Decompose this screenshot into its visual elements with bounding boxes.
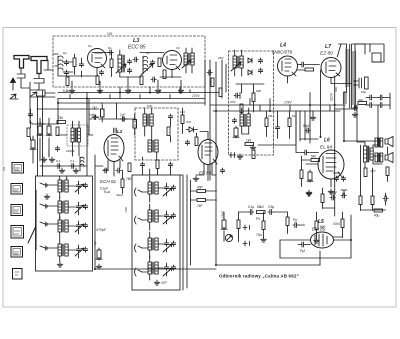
wire box A drops xyxy=(72,77,181,87)
ground G17 xyxy=(261,237,267,242)
switch box Po xyxy=(11,205,23,216)
osc stage 4: transformer T17 xyxy=(148,262,158,274)
wire det xyxy=(236,84,264,112)
resistor R42 xyxy=(27,128,30,137)
volume pot with switch xyxy=(225,234,232,241)
svg-text:50µF: 50µF xyxy=(330,191,337,195)
wire U2 to EZ80 xyxy=(298,65,320,71)
ground G12 xyxy=(328,189,334,194)
svg-text:40Ρ: 40Ρ xyxy=(197,186,203,190)
ground G22 xyxy=(73,168,79,173)
node n2 xyxy=(119,92,121,94)
wire mains to switch xyxy=(352,44,384,62)
switch box Sr xyxy=(11,226,24,239)
wire transformer top xyxy=(337,44,365,92)
trimmer arrow xyxy=(116,64,126,73)
band stage 2: transformer T11 xyxy=(58,201,68,213)
resistor R29 xyxy=(237,220,240,229)
capacitor C61 xyxy=(220,168,224,173)
svg-text:170V: 170V xyxy=(192,94,200,98)
svg-text:9p: 9p xyxy=(63,51,67,55)
ground G1 xyxy=(69,88,75,93)
svg-text:6,8: 6,8 xyxy=(37,121,42,125)
resistor R44 xyxy=(133,120,137,129)
osc stage 4: contact xyxy=(135,268,143,276)
svg-text:7k0: 7k0 xyxy=(58,116,63,120)
svg-text:6k8: 6k8 xyxy=(256,89,261,93)
electrolytic C13 xyxy=(233,126,239,138)
wire bottom row xyxy=(58,75,138,77)
capacitor C25 xyxy=(70,164,75,169)
capacitor C62 xyxy=(99,70,103,75)
electrolytic C35 xyxy=(307,170,313,182)
trimmer arrows left coil box xyxy=(75,184,84,256)
resistor R35 xyxy=(321,194,324,203)
svg-text:7kΡ: 7kΡ xyxy=(197,204,203,208)
mains switch S1 xyxy=(372,53,381,62)
wire tuner bottom rail xyxy=(88,76,181,77)
node n8 xyxy=(334,104,336,106)
resistor R34 xyxy=(341,219,344,228)
band stage 4: transformer T13 xyxy=(58,244,68,256)
resistor R14 xyxy=(121,179,124,188)
switch box Kr xyxy=(11,184,23,195)
node n13 xyxy=(343,140,345,142)
resistor R24 xyxy=(364,168,367,177)
capacitor bank C20 xyxy=(379,103,384,108)
capacitor bank C19 xyxy=(368,103,373,108)
svg-text:ΡµΩ: ΡµΩ xyxy=(104,190,111,194)
resistor R36 xyxy=(359,196,362,205)
wire left risers xyxy=(30,109,32,140)
tube U4 ECH81 xyxy=(104,135,124,170)
svg-text:300: 300 xyxy=(334,87,338,92)
ground G8 xyxy=(41,157,47,162)
resistor R22 xyxy=(311,159,320,162)
resistor R43 xyxy=(101,109,105,117)
capacitor C66 xyxy=(28,112,32,117)
bus riser stubs xyxy=(240,93,330,112)
wire g23 stub xyxy=(312,111,314,115)
tube U2 UABC80 xyxy=(278,56,298,76)
wire grid left xyxy=(55,54,82,77)
electrolytic cap C68 xyxy=(121,117,128,121)
svg-text:ECH 81: ECH 81 xyxy=(100,179,117,184)
ground G4 xyxy=(155,88,161,93)
osc stage 1: transformer T14 xyxy=(148,182,158,194)
wire cluster xyxy=(40,118,49,156)
svg-text:Ρµf: Ρµf xyxy=(300,249,305,253)
band stage 3: capacitor C43 xyxy=(83,223,87,228)
wire cluster xyxy=(323,188,348,209)
svg-text:220pF: 220pF xyxy=(66,149,75,153)
resistor R4 xyxy=(66,77,69,86)
osc stage 2: contact xyxy=(135,216,143,224)
svg-text:50µF: 50µF xyxy=(303,124,310,128)
capacitor C1 xyxy=(64,60,68,65)
svg-text:47Ρ: 47Ρ xyxy=(161,281,167,285)
trimmer arrow T2 xyxy=(231,62,241,71)
switch contact K1 xyxy=(243,225,250,230)
svg-text:EZ 80: EZ 80 xyxy=(320,51,333,57)
wire ECH81 pins xyxy=(103,160,120,170)
antenna T2 xyxy=(31,57,47,74)
band stage 4 wires xyxy=(46,240,79,262)
svg-text:5µF: 5µF xyxy=(147,104,153,108)
svg-text:6p: 6p xyxy=(108,46,112,50)
wire ECH81 down xyxy=(95,155,123,269)
capacitor C60 xyxy=(207,70,212,75)
resistor R6 xyxy=(140,76,143,85)
switch box Gr xyxy=(13,269,23,280)
band stage 1: trimmer C38 xyxy=(76,183,80,188)
wire right risers xyxy=(267,105,311,143)
resistor R16 xyxy=(181,115,184,124)
capacitor C63 xyxy=(133,57,138,62)
wire cluster links xyxy=(89,99,135,136)
svg-text:2µF: 2µF xyxy=(120,113,126,117)
svg-text:93V: 93V xyxy=(230,100,236,104)
resistor R21 xyxy=(288,118,291,127)
wire T6 xyxy=(242,108,249,134)
band stage 1 wires xyxy=(46,176,79,198)
resistor R1 xyxy=(73,58,76,67)
tube U1a ECC85 triode xyxy=(88,49,107,68)
node n3 xyxy=(149,92,151,94)
ground G5 xyxy=(178,88,184,93)
svg-text:220V: 220V xyxy=(330,92,334,101)
svg-text:6p: 6p xyxy=(88,44,92,48)
svg-text:L3: L3 xyxy=(133,38,139,44)
oscillator coil T3 xyxy=(71,128,80,142)
wire rectifier out xyxy=(331,84,355,110)
wire tone chain xyxy=(239,211,249,213)
capacitor C7 xyxy=(150,60,154,65)
svg-text:Ρµ: Ρµ xyxy=(293,218,297,222)
wire EF85 in xyxy=(183,108,197,137)
wire vol area xyxy=(224,212,239,242)
wire speaker riser xyxy=(377,105,379,137)
switch box Dl xyxy=(11,247,23,258)
wire audio box right xyxy=(319,251,321,265)
band stage 1: transformer T10 xyxy=(58,180,68,192)
electrolytic C22 xyxy=(37,124,43,136)
dashed box L1 (osc coil) xyxy=(67,125,88,146)
ground G21 xyxy=(59,168,65,173)
band stage 2: trimmer C40 xyxy=(76,204,80,209)
resistor R8 xyxy=(252,93,255,102)
ground G10 xyxy=(96,264,102,269)
capacitor C6 xyxy=(127,68,131,73)
capacitor C21 xyxy=(353,106,358,111)
band stage 4: contact xyxy=(40,246,47,250)
wire antenna bus down xyxy=(38,90,43,176)
capacitor C33 xyxy=(305,128,310,133)
switch arm lever xyxy=(28,224,36,245)
wire EL84 left xyxy=(296,153,319,187)
capacitor C5 xyxy=(127,59,131,64)
wire bus W5 xyxy=(32,123,58,125)
wire bus W1 xyxy=(58,92,219,94)
svg-text:Odbiornik radiowy „Calina AB 6: Odbiornik radiowy „Calina AB 662” xyxy=(219,274,299,279)
tube U6 EL84 xyxy=(318,150,344,179)
wire risers right of middle box xyxy=(143,157,191,290)
svg-text:0,1: 0,1 xyxy=(56,159,61,163)
svg-text:2M: 2M xyxy=(268,114,273,118)
capacitor C32 xyxy=(275,125,279,130)
wire switch column xyxy=(35,190,37,250)
node n12 xyxy=(320,136,322,138)
resistor R41 xyxy=(163,70,166,79)
band stage 3: transformer T12 xyxy=(58,220,68,232)
osc stage 3 wires xyxy=(142,232,167,258)
wire to box A xyxy=(30,93,55,97)
trimmer C2 xyxy=(64,70,68,75)
svg-text:0,1: 0,1 xyxy=(70,159,75,163)
wire tuner-to-detector verticals xyxy=(222,60,226,98)
IF transformer T4 xyxy=(143,114,153,126)
svg-text:Ρ0: Ρ0 xyxy=(256,217,260,221)
output transformer T7 xyxy=(344,105,383,177)
resistor R38 xyxy=(374,209,383,212)
matching transformer T8 xyxy=(375,138,378,147)
resistor R26 xyxy=(156,160,159,169)
resistor R33 xyxy=(315,221,318,230)
switch box Zw xyxy=(12,163,24,174)
resistor R30 xyxy=(257,211,266,214)
svg-text:1k0: 1k0 xyxy=(180,110,185,114)
node n1 xyxy=(86,98,88,100)
svg-text:47Ρ: 47Ρ xyxy=(370,169,376,173)
band stage 4: capacitor C45 xyxy=(83,247,87,252)
osc stage 1: contact xyxy=(135,188,143,196)
trimmer arrow 2 xyxy=(141,64,153,75)
svg-text:100Ρ: 100Ρ xyxy=(333,171,340,175)
svg-text:30: 30 xyxy=(146,51,150,55)
wire mid-left xyxy=(33,136,49,163)
svg-text:25V: 25V xyxy=(218,56,224,60)
svg-text:L2: L2 xyxy=(117,129,123,134)
capacitor C34 xyxy=(303,150,308,155)
band stage 1: contact xyxy=(40,183,47,187)
wire audio box bottom xyxy=(216,264,320,266)
resistor R13 xyxy=(56,127,59,136)
tube U7 EM80 magic eye xyxy=(311,232,334,248)
coil L2 osc with core xyxy=(118,55,122,72)
ground G14 xyxy=(44,194,50,199)
resistor R9 xyxy=(240,104,243,113)
svg-text:43µ: 43µ xyxy=(358,98,363,102)
osc stage 2: caps C47 xyxy=(164,213,168,218)
svg-text:50µ: 50µ xyxy=(361,90,366,94)
svg-text:L4: L4 xyxy=(280,43,286,49)
wire verticals top-mid xyxy=(87,60,216,180)
electrolytic C28 xyxy=(96,248,102,260)
capacitor C30 xyxy=(185,140,189,145)
band stage 1: capacitor C39 xyxy=(83,183,87,188)
coil L3 tank xyxy=(143,56,148,74)
resistor R3 xyxy=(158,58,161,67)
wire EM80 xyxy=(280,212,351,258)
svg-text:L5: L5 xyxy=(318,219,324,225)
speaker SP1 xyxy=(385,137,393,147)
ground G7 xyxy=(352,112,358,117)
capacitor C8 xyxy=(151,77,156,82)
capacitor C55 xyxy=(293,223,298,228)
svg-text:0,1µ: 0,1µ xyxy=(248,205,254,209)
electrolytic cap C67 xyxy=(92,115,99,119)
capacitor C54 xyxy=(268,210,273,215)
tube U3 EZ80 rectifier xyxy=(321,58,341,78)
junction details mid xyxy=(43,99,88,127)
heater winding xyxy=(343,92,345,104)
node n9 xyxy=(94,268,96,270)
wire bus W3 xyxy=(210,104,345,106)
IF transformer T1 xyxy=(184,53,194,65)
node n5 xyxy=(215,110,217,112)
diode D1 xyxy=(248,58,252,63)
osc stage 3: contact xyxy=(135,244,143,252)
svg-text:47k0: 47k0 xyxy=(333,222,340,226)
resistor R7 left of box xyxy=(219,88,222,97)
node n10 xyxy=(215,264,217,266)
tube U1b ECC85 triode xyxy=(163,51,182,70)
capacitor C11 xyxy=(258,68,262,73)
electrolytic C64 xyxy=(30,138,36,150)
osc stage 4: caps C49 xyxy=(164,265,168,270)
osc stage 4 wires xyxy=(142,256,167,280)
speaker SP2 xyxy=(385,153,393,163)
svg-text:10: 10 xyxy=(176,46,180,50)
svg-text:1k0: 1k0 xyxy=(246,139,251,143)
osc stage 2 wires xyxy=(142,204,167,230)
ground G20 xyxy=(193,176,199,181)
plug connector P1 xyxy=(17,74,25,82)
wire antenna cross xyxy=(30,97,32,123)
svg-text:5k0: 5k0 xyxy=(311,155,316,159)
capacitor bank C17 xyxy=(368,95,373,100)
osc stage 1: caps C46 xyxy=(164,185,168,190)
svg-text:100: 100 xyxy=(107,32,113,36)
resistor R37 xyxy=(371,196,374,205)
resistor R18 xyxy=(245,143,254,146)
wire to speakers xyxy=(344,105,382,164)
trimmer arrows mid coil box xyxy=(163,188,172,276)
resistor R10 xyxy=(305,68,314,71)
capacitor C58 xyxy=(341,193,346,198)
capacitor C56 xyxy=(300,242,305,247)
resistor R12 on W5 xyxy=(57,121,66,124)
svg-text:EM 80: EM 80 xyxy=(312,227,326,232)
antenna T1 xyxy=(14,56,29,69)
svg-text:6N8C/6T8: 6N8C/6T8 xyxy=(272,50,293,55)
wire res pair xyxy=(191,191,217,200)
band stage 2 wires xyxy=(46,197,79,219)
capacitor C3 xyxy=(79,62,83,67)
ground G6 xyxy=(250,145,256,150)
band stage 3: trimmer C42 xyxy=(76,223,80,228)
arrow A (antenna input arrow) xyxy=(11,78,16,90)
capacitor C31 xyxy=(232,118,236,123)
wire tuner top rail xyxy=(53,53,164,55)
node n15 xyxy=(57,102,59,104)
resistor R31 xyxy=(262,221,265,230)
svg-text:40µ: 40µ xyxy=(374,214,380,218)
wire HT line down xyxy=(334,76,336,216)
IF transformer T6 xyxy=(240,114,250,126)
switch contact K2 xyxy=(243,241,250,246)
wire osc coil leads xyxy=(58,121,93,156)
ground G18 xyxy=(314,238,320,243)
node n11 xyxy=(350,239,352,241)
power transformer TR1 core xyxy=(350,44,352,108)
band stage 2: contact xyxy=(40,204,47,208)
coil L5a xyxy=(80,157,84,171)
trimmer arrows T1 xyxy=(182,60,191,68)
band stage 2: capacitor C41 xyxy=(83,204,87,209)
node n14 xyxy=(42,123,44,125)
matching transformer T9 xyxy=(375,153,378,162)
resistor R11 xyxy=(358,102,367,105)
osc stage 2: transformer T15 xyxy=(148,210,158,222)
capacitor C51 xyxy=(168,162,172,167)
ground G16 xyxy=(154,280,160,285)
wire bus drop x305 xyxy=(304,111,306,140)
band stage 4: trimmer C44 xyxy=(76,247,80,252)
electrolytic C16 xyxy=(365,77,369,89)
arrow earth input xyxy=(10,94,18,99)
capacitor C53 xyxy=(249,210,254,215)
svg-text:X70pF: X70pF xyxy=(95,228,107,232)
svg-text:4µF: 4µF xyxy=(93,240,97,246)
capacitor C12 xyxy=(234,93,239,98)
band stage 3: contact xyxy=(40,222,47,226)
svg-text:0,5µ: 0,5µ xyxy=(268,205,274,209)
wire bus W4 xyxy=(213,110,340,112)
wire mid xyxy=(112,50,120,77)
resistor R5 xyxy=(96,76,99,85)
coil L1 input xyxy=(58,56,63,76)
svg-text:ECC 85: ECC 85 xyxy=(128,45,146,51)
resistor R2 xyxy=(110,59,113,68)
resistor R19 xyxy=(252,150,255,159)
capacitor bank C37 xyxy=(341,176,345,181)
capacitor C4 xyxy=(108,50,113,55)
wire speaker returns xyxy=(387,147,389,182)
svg-text:178V: 178V xyxy=(284,101,292,105)
svg-text:68k2: 68k2 xyxy=(257,205,264,209)
resistor R25 xyxy=(386,167,389,176)
primary winding xyxy=(345,48,347,88)
capacitor C65 xyxy=(55,146,59,151)
wire bottom stubs xyxy=(264,212,317,238)
capacitor C14 xyxy=(300,62,305,67)
svg-text:L6: L6 xyxy=(324,138,330,144)
electrolytic C52 xyxy=(221,218,227,230)
wire EF85 top feed xyxy=(200,132,208,140)
wire EL84 input riser xyxy=(295,111,297,152)
wire long risers right xyxy=(344,105,373,188)
headphone jack symbol xyxy=(229,153,235,158)
resistor R27 xyxy=(197,190,206,193)
resistor R28 xyxy=(197,199,206,202)
wire EF85 pins down xyxy=(196,163,216,181)
wire bus W2 xyxy=(58,98,205,100)
capacitor bank C18 xyxy=(379,95,384,100)
wire bottom bus left xyxy=(95,268,216,270)
electrolytic C23 xyxy=(46,124,52,136)
tube U5 EF85 xyxy=(198,140,218,173)
